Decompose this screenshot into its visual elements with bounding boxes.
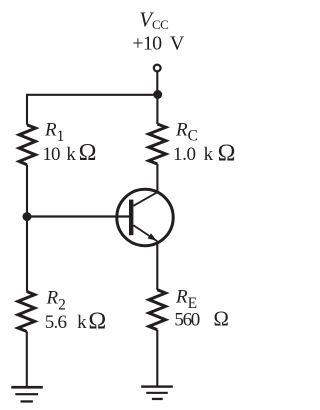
transistor emitter lead [133, 225, 157, 241]
ground symbol left [11, 386, 43, 403]
transistor base bar [129, 200, 133, 236]
junction dot base node [23, 212, 32, 221]
transistor Q1 [117, 189, 173, 245]
svg-text:R1: R1 [44, 120, 64, 146]
resistor RE [149, 290, 166, 330]
svg-text:1.0 k: 1.0 k [173, 144, 214, 165]
wire RE bottom to ground [156, 330, 158, 386]
svg-text:RC: RC [175, 120, 198, 145]
svg-text:Ω: Ω [79, 140, 97, 166]
svg-text:Ω: Ω [218, 141, 236, 167]
ground symbol right [141, 385, 173, 400]
resistor R1 [19, 125, 35, 165]
wire base node to transistor base [27, 215, 129, 217]
wire base node to R2 [26, 217, 28, 292]
wire VCC terminal to top rail [156, 72, 158, 95]
svg-text:5.6 k: 5.6 k [45, 312, 87, 333]
svg-text:VCC: VCC [139, 7, 168, 32]
svg-text:RE: RE [175, 287, 197, 312]
svg-text:Ω: Ω [214, 309, 229, 331]
resistor RC [149, 124, 166, 164]
transistor emitter arrowhead [148, 233, 157, 240]
wire top rail and left rail down to R1 [27, 95, 158, 125]
svg-text:10 k: 10 k [42, 144, 76, 165]
svg-text:560: 560 [174, 310, 199, 331]
wire R2 bottom to ground [26, 331, 28, 386]
svg-text:Ω: Ω [88, 308, 106, 334]
transistor body circle [117, 189, 173, 245]
svg-text:R2: R2 [46, 287, 66, 313]
wire emitter to RE [156, 243, 158, 290]
junction dot VCC node [153, 90, 162, 99]
VCC terminal (open circle) [154, 65, 161, 72]
transistor collector lead [133, 192, 157, 206]
wire R1 bottom to base node [26, 165, 28, 217]
wire RC bottom to collector [156, 164, 158, 193]
wire VCC node down to RC [156, 95, 158, 124]
resistor R2 [18, 291, 35, 331]
svg-text:+10 V: +10 V [132, 33, 185, 55]
